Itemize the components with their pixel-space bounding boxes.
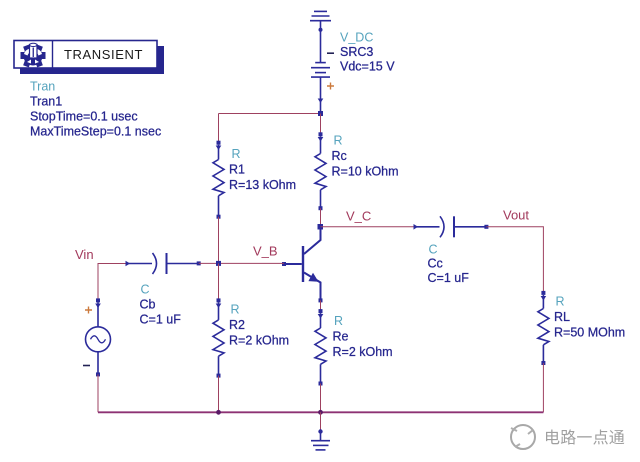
source Vin (ac source) [83,298,111,376]
svg-text:Cc: Cc [428,257,443,271]
wire RL to bottom rail corner [542,363,544,412]
wire bottom rail [98,411,543,413]
capacitor Cb [126,253,201,274]
resistor Re [315,309,326,385]
svg-text:C=1 uF: C=1 uF [428,271,470,285]
svg-text:RL: RL [554,310,570,324]
resistor RL [538,291,549,365]
resistor Rc [315,132,326,210]
svg-text:R=2 kOhm: R=2 kOhm [229,334,289,348]
svg-text:R=10 kOhm: R=10 kOhm [332,165,399,179]
wire supply to Rc [320,114,322,135]
svg-text:Rc: Rc [332,149,347,163]
TRANSIENT controller block [14,41,164,75]
svg-text:R2: R2 [229,318,245,332]
node junction at supply [318,111,323,116]
svg-text:Vdc=15 V: Vdc=15 V [340,60,395,74]
svg-text:V_B: V_B [253,244,278,259]
node junction base/R1/R2 [216,261,221,266]
svg-text:Vout: Vout [503,208,529,223]
svg-text:Cb: Cb [140,298,156,312]
wire Cc to Vout corner [486,227,543,293]
svg-text:Vin: Vin [75,247,94,262]
wire Vin corner to Cb [98,264,127,301]
ground GND top (inverted) [310,11,331,62]
watermark logo [511,425,625,449]
svg-text:R: R [556,295,565,309]
wire V_C to Cc [321,226,417,228]
svg-text:MaxTimeStep=0.1 nsec: MaxTimeStep=0.1 nsec [30,125,161,139]
wire R2 to bottom rail [218,376,220,413]
wire R1 branch down to R1 [218,114,220,143]
wire base node down to R2 [218,263,220,300]
wire Cb to base [199,262,284,264]
svg-text:R=2 kOhm: R=2 kOhm [333,345,393,359]
svg-text:Re: Re [333,330,349,344]
svg-text:R: R [334,314,343,328]
resistor R1 [213,141,224,219]
svg-text:Tran1: Tran1 [30,95,62,109]
node junction rail/R2 [216,410,221,415]
svg-text:电路一点通: 电路一点通 [544,429,625,447]
gear icon [21,43,46,67]
svg-text:Tran: Tran [30,80,55,94]
ground GND bottom [311,429,330,450]
wire R1 to base node [218,217,220,264]
svg-text:R: R [232,147,241,161]
wire Re to bottom rail [320,384,322,413]
svg-text:C: C [429,243,438,257]
transistor Q1 (npn BJT) [282,229,323,302]
svg-text:R1: R1 [229,163,245,177]
wire emitter to Re [320,300,322,311]
svg-text:R: R [231,303,240,317]
svg-text:V_C: V_C [346,209,371,224]
wire rail to bottom ground [320,412,322,430]
wire source to bottom rail [97,374,99,412]
node junction V_C [318,224,324,230]
svg-text:R=13 kOhm: R=13 kOhm [229,178,296,192]
svg-text:R=50 MOhm: R=50 MOhm [554,326,625,340]
node junction rail/Re/gnd [318,410,323,415]
wire Rc to collector node [320,208,322,227]
wire top rail to R1 branch [219,113,321,115]
svg-text:C: C [141,283,150,297]
dc source SRC3 battery symbol [311,53,334,113]
svg-text:StopTime=0.1 usec: StopTime=0.1 usec [30,110,138,124]
svg-text:C=1 uF: C=1 uF [140,313,182,327]
svg-text:R: R [334,134,343,148]
capacitor Cc [414,216,489,237]
svg-text:SRC3: SRC3 [340,45,373,59]
svg-text:V_DC: V_DC [340,31,373,45]
svg-text:TRANSIENT: TRANSIENT [64,47,143,62]
resistor R2 [213,298,224,377]
